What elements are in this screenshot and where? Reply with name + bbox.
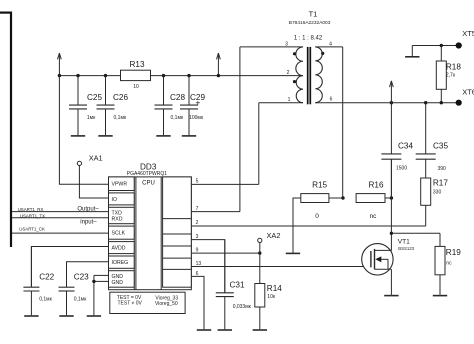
svg-text:2,7к: 2,7к bbox=[446, 73, 456, 79]
svg-text:USART1_TX: USART1_TX bbox=[20, 213, 45, 218]
svg-text:R18: R18 bbox=[446, 62, 461, 71]
svg-text:R15: R15 bbox=[312, 180, 327, 189]
svg-text:B78416A2232A003: B78416A2232A003 bbox=[289, 20, 331, 26]
svg-text:AVDD: AVDD bbox=[112, 246, 126, 252]
svg-text:C22: C22 bbox=[39, 272, 54, 281]
svg-text:4: 4 bbox=[329, 42, 332, 48]
svg-text:6: 6 bbox=[330, 97, 333, 103]
svg-text:R14: R14 bbox=[267, 284, 282, 293]
svg-text:3: 3 bbox=[196, 234, 199, 240]
svg-text:SCLK: SCLK bbox=[112, 231, 126, 237]
svg-text:BSS123: BSS123 bbox=[398, 246, 414, 251]
svg-text:C34: C34 bbox=[398, 141, 413, 150]
svg-text:USART1_CK: USART1_CK bbox=[19, 227, 45, 232]
svg-text:330: 330 bbox=[433, 190, 442, 196]
svg-text:1мк: 1мк bbox=[87, 115, 96, 121]
svg-text:XT5: XT5 bbox=[462, 29, 474, 38]
svg-text:XA1: XA1 bbox=[89, 154, 103, 163]
svg-text:VPWR: VPWR bbox=[112, 182, 128, 188]
svg-text:TEST ≠ 0V: TEST ≠ 0V bbox=[118, 301, 143, 307]
svg-text:CPU: CPU bbox=[142, 180, 155, 186]
svg-text:RXD: RXD bbox=[112, 216, 123, 222]
svg-text:C23: C23 bbox=[74, 272, 89, 281]
svg-text:IO: IO bbox=[112, 197, 117, 203]
svg-text:input–: input– bbox=[80, 219, 97, 225]
svg-text:+: + bbox=[195, 97, 200, 107]
svg-text:R17: R17 bbox=[433, 179, 448, 188]
svg-text:100мк: 100мк bbox=[189, 115, 204, 121]
svg-text:C35: C35 bbox=[433, 141, 448, 150]
svg-text:VT1: VT1 bbox=[398, 239, 410, 246]
svg-text:1 : 1 : 8.42: 1 : 1 : 8.42 bbox=[294, 36, 323, 42]
svg-text:0,1мк: 0,1мк bbox=[74, 296, 87, 302]
svg-text:C25: C25 bbox=[87, 93, 102, 102]
svg-text:XT6: XT6 bbox=[462, 87, 474, 96]
svg-text:T1: T1 bbox=[309, 10, 318, 19]
svg-text:XA2: XA2 bbox=[267, 231, 281, 240]
svg-text:nc: nc bbox=[446, 260, 452, 266]
svg-text:1: 1 bbox=[288, 97, 291, 103]
svg-text:R13: R13 bbox=[129, 60, 144, 69]
svg-text:3: 3 bbox=[285, 42, 288, 48]
svg-text:0,1мк: 0,1мк bbox=[39, 296, 52, 302]
svg-text:0: 0 bbox=[315, 213, 319, 220]
svg-text:GND: GND bbox=[112, 280, 124, 286]
svg-text:USART1_RX: USART1_RX bbox=[18, 207, 44, 212]
svg-text:2: 2 bbox=[196, 220, 199, 226]
svg-text:2: 2 bbox=[287, 70, 290, 76]
svg-text:nc: nc bbox=[370, 213, 378, 220]
svg-text:R19: R19 bbox=[446, 248, 461, 257]
svg-text:C28: C28 bbox=[170, 93, 185, 102]
svg-text:PGA460TPWRQ1: PGA460TPWRQ1 bbox=[127, 171, 168, 177]
svg-text:R16: R16 bbox=[368, 180, 383, 189]
svg-text:1500: 1500 bbox=[396, 165, 407, 171]
svg-text:390: 390 bbox=[438, 166, 447, 172]
svg-text:0,1мк: 0,1мк bbox=[114, 115, 127, 121]
svg-text:0,033мк: 0,033мк bbox=[233, 304, 252, 310]
svg-text:5: 5 bbox=[196, 179, 199, 185]
svg-text:10: 10 bbox=[133, 84, 139, 90]
svg-text:0,1мк: 0,1мк bbox=[171, 115, 184, 121]
svg-text:Output–: Output– bbox=[77, 207, 99, 213]
svg-text:C31: C31 bbox=[230, 280, 245, 289]
svg-text:Vioreg_50: Vioreg_50 bbox=[155, 301, 178, 307]
svg-text:10к: 10к bbox=[267, 294, 276, 300]
svg-text:C26: C26 bbox=[113, 93, 128, 102]
svg-text:IOREG: IOREG bbox=[112, 260, 129, 266]
